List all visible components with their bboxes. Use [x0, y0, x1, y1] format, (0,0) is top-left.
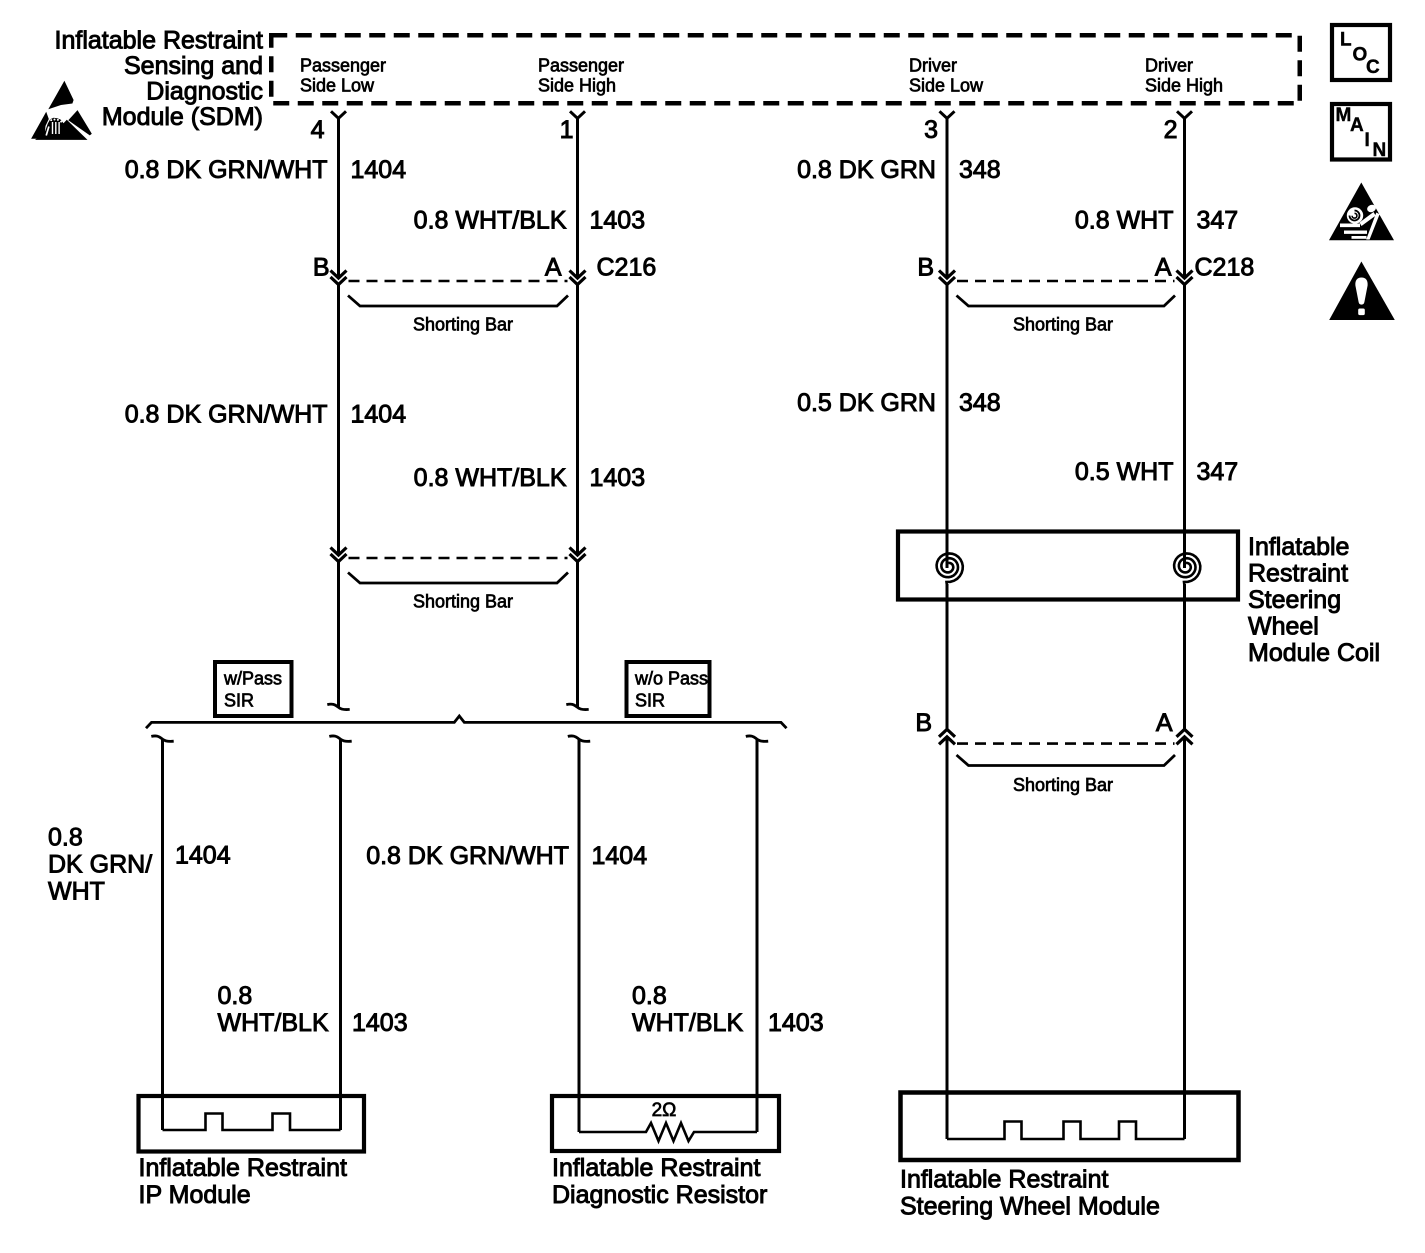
svg-text:A: A — [545, 254, 562, 282]
svg-text:347: 347 — [1197, 207, 1239, 235]
svg-text:L: L — [1340, 30, 1352, 51]
svg-text:0.8 WHT/BLK: 0.8 WHT/BLK — [414, 207, 567, 235]
svg-text:Module Coil: Module Coil — [1248, 639, 1380, 667]
svg-text:1403: 1403 — [352, 1009, 408, 1037]
svg-text:M: M — [1336, 105, 1352, 126]
svg-text:A: A — [1156, 709, 1173, 737]
svg-text:Side High: Side High — [538, 76, 616, 96]
svg-text:B: B — [917, 254, 934, 282]
svg-text:Passenger: Passenger — [538, 56, 624, 76]
svg-text:0.8 DK GRN: 0.8 DK GRN — [797, 156, 936, 184]
svg-text:Steering: Steering — [1248, 586, 1341, 614]
svg-text:Driver: Driver — [1145, 56, 1193, 76]
svg-text:2Ω: 2Ω — [652, 1100, 677, 1121]
svg-text:0.8 DK GRN/WHT: 0.8 DK GRN/WHT — [125, 156, 328, 184]
svg-text:WHT/BLK: WHT/BLK — [218, 1009, 329, 1037]
svg-text:Shorting Bar: Shorting Bar — [413, 315, 513, 335]
svg-text:1: 1 — [560, 116, 574, 144]
svg-text:348: 348 — [959, 156, 1001, 184]
svg-text:0.8 WHT/BLK: 0.8 WHT/BLK — [414, 464, 567, 492]
svg-text:Side Low: Side Low — [909, 76, 984, 96]
svg-text:4: 4 — [311, 116, 325, 144]
svg-text:IP Module: IP Module — [139, 1181, 251, 1209]
svg-text:0.8 DK GRN/WHT: 0.8 DK GRN/WHT — [366, 842, 569, 870]
svg-text:0.8: 0.8 — [48, 824, 83, 852]
svg-text:SIR: SIR — [224, 691, 254, 711]
svg-text:w/Pass: w/Pass — [223, 669, 282, 689]
svg-text:1403: 1403 — [590, 464, 646, 492]
svg-text:Diagnostic Resistor: Diagnostic Resistor — [552, 1181, 767, 1209]
svg-text:A: A — [1155, 254, 1172, 282]
svg-text:Shorting Bar: Shorting Bar — [1013, 315, 1113, 335]
svg-text:347: 347 — [1197, 458, 1239, 486]
svg-text:Side High: Side High — [1145, 76, 1223, 96]
svg-text:Inflatable Restraint: Inflatable Restraint — [900, 1166, 1109, 1194]
svg-text:B: B — [313, 254, 330, 282]
svg-text:B: B — [915, 709, 932, 737]
svg-text:Shorting Bar: Shorting Bar — [1013, 775, 1113, 795]
svg-text:WHT: WHT — [48, 878, 105, 906]
svg-text:N: N — [1373, 140, 1387, 161]
svg-text:0.5 WHT: 0.5 WHT — [1075, 458, 1174, 486]
svg-text:A: A — [1350, 115, 1364, 136]
svg-text:WHT/BLK: WHT/BLK — [632, 1009, 743, 1037]
svg-text:SIR: SIR — [635, 691, 665, 711]
svg-text:I: I — [1365, 130, 1370, 151]
svg-text:Sensing and: Sensing and — [124, 52, 263, 80]
svg-text:Diagnostic: Diagnostic — [146, 78, 263, 106]
svg-text:Wheel: Wheel — [1248, 613, 1319, 641]
svg-text:3: 3 — [924, 116, 938, 144]
svg-text:1404: 1404 — [351, 401, 407, 429]
svg-text:1404: 1404 — [175, 842, 231, 870]
svg-text:0.5 DK GRN: 0.5 DK GRN — [797, 389, 936, 417]
svg-text:Side Low: Side Low — [300, 76, 375, 96]
svg-text:1403: 1403 — [768, 1009, 824, 1037]
svg-text:Shorting Bar: Shorting Bar — [413, 592, 513, 612]
svg-text:w/o Pass: w/o Pass — [634, 669, 708, 689]
svg-text:C218: C218 — [1195, 254, 1255, 282]
svg-text:Inflatable Restraint: Inflatable Restraint — [55, 27, 264, 55]
svg-text:DK GRN/: DK GRN/ — [48, 851, 152, 879]
svg-text:Inflatable Restraint: Inflatable Restraint — [139, 1154, 348, 1182]
svg-text:0.8: 0.8 — [218, 982, 253, 1010]
svg-text:C216: C216 — [597, 254, 657, 282]
svg-text:Steering Wheel Module: Steering Wheel Module — [900, 1193, 1160, 1221]
svg-text:Inflatable Restraint: Inflatable Restraint — [552, 1154, 761, 1182]
svg-text:1404: 1404 — [592, 842, 648, 870]
svg-text:Passenger: Passenger — [300, 56, 386, 76]
svg-text:Module (SDM): Module (SDM) — [102, 103, 263, 131]
svg-text:Restraint: Restraint — [1248, 560, 1348, 588]
svg-text:1404: 1404 — [351, 156, 407, 184]
svg-text:348: 348 — [959, 389, 1001, 417]
svg-text:0.8 DK GRN/WHT: 0.8 DK GRN/WHT — [125, 401, 328, 429]
svg-text:0.8 WHT: 0.8 WHT — [1075, 207, 1174, 235]
svg-text:C: C — [1366, 57, 1380, 78]
svg-text:1403: 1403 — [590, 207, 646, 235]
svg-text:2: 2 — [1164, 116, 1178, 144]
svg-text:0.8: 0.8 — [632, 982, 667, 1010]
svg-text:Driver: Driver — [909, 56, 957, 76]
svg-text:Inflatable: Inflatable — [1248, 533, 1349, 561]
